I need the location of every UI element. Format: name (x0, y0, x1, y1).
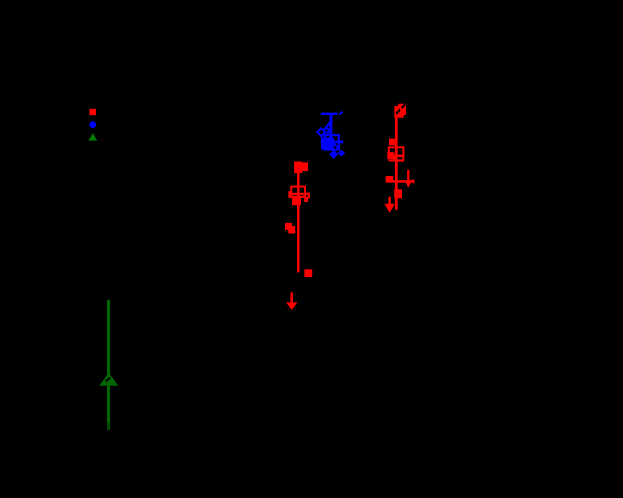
red left x errorbar right cap (308, 192, 310, 198)
red left upper limit arrow shaft (290, 292, 293, 304)
black slash through red right top blob (396, 104, 405, 114)
red left x errorbar left cap (288, 191, 290, 198)
blue filled diamond marker 1 (329, 150, 338, 159)
red left open square marker (291, 187, 305, 197)
blue big open square marker (324, 135, 338, 149)
blue small open square marker (325, 129, 329, 133)
blue open diamond marker (317, 128, 325, 136)
legend marker blue circle (89, 121, 96, 128)
red right small arrow shaft (407, 170, 409, 183)
red right open square marker 1 (389, 147, 404, 156)
red right errorbar vertical line (395, 117, 398, 190)
blue errorbar lower cap (321, 141, 344, 144)
red right small arrow head (405, 181, 412, 188)
black slash through green triangle (106, 378, 110, 382)
blue errorbar vertical line (329, 114, 332, 150)
red left upper limit arrow head (286, 302, 297, 310)
green data triangle (99, 373, 118, 386)
red right filled square upper (389, 139, 396, 146)
blue line segment inside square (333, 143, 339, 148)
red right filled square mid left (386, 176, 394, 183)
red right upper limit arrow shaft (388, 197, 391, 205)
red right filled square left (387, 152, 394, 159)
red right filled square lower (394, 189, 402, 198)
blue filled diamond marker 2 (338, 150, 346, 157)
blue filled marker blob (321, 137, 334, 149)
red right x errorbar right cap (412, 179, 414, 183)
red left x errorbar line (289, 193, 310, 196)
blue line segment upper right tick (339, 112, 342, 115)
red left filled square pair lower (288, 226, 295, 233)
red left cluster top filled square a (294, 162, 302, 174)
dark segment on lower green line (107, 423, 109, 429)
blue line segment diagonal (325, 121, 331, 128)
red left cluster top filled square b (302, 162, 308, 171)
red right top blob (394, 104, 406, 118)
red right upper limit arrow head (384, 204, 395, 213)
legend marker green triangle (88, 133, 97, 140)
red left errorbar vertical line (297, 172, 300, 272)
red left filled square below (292, 197, 301, 205)
red patch splitting slash (400, 108, 402, 111)
blue errorbar top cap (321, 113, 338, 115)
red right lower cap line (389, 159, 404, 161)
red left small filled square lower right (304, 269, 312, 277)
red right errorbar vertical lower (395, 198, 398, 210)
legend marker red square (90, 109, 97, 115)
red left small nub right (304, 197, 308, 202)
red right x errorbar line (393, 180, 414, 183)
green errorbar vertical line (107, 300, 110, 430)
red left filled square pair upper (285, 223, 292, 230)
red right open square marker 2 (395, 156, 404, 161)
